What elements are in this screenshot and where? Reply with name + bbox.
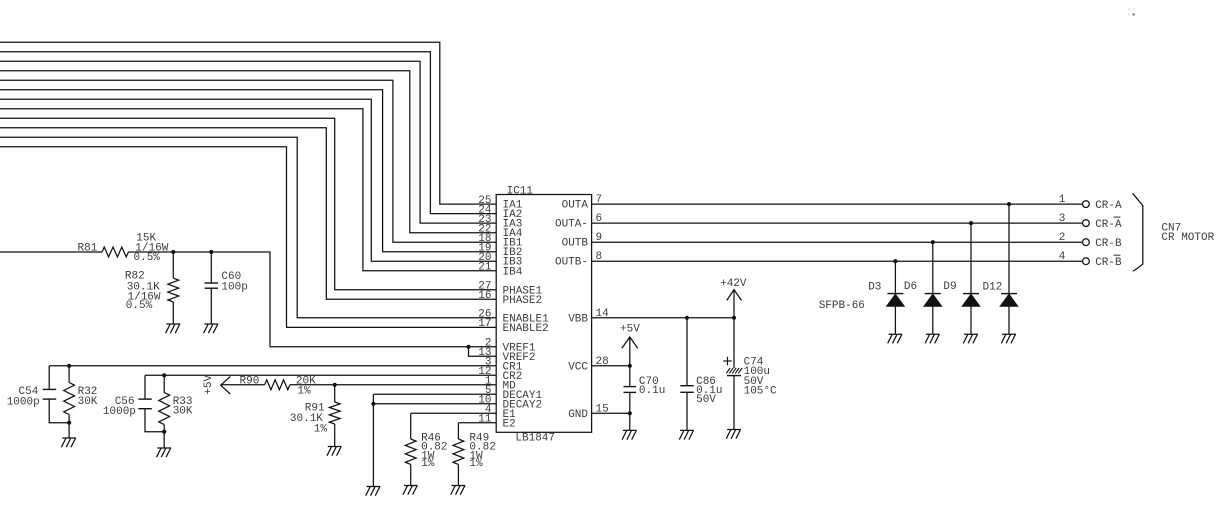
junction node +42V/C74	[732, 316, 736, 320]
wire bundle net to pin IB2	[0, 90, 496, 252]
ground under R49	[451, 486, 466, 495]
wire E1 net	[411, 412, 497, 414]
wire bundle net to pin ENABLE1	[0, 137, 496, 317]
svg-text:SFPB-66: SFPB-66	[819, 300, 865, 312]
speckle artifact	[1132, 13, 1135, 16]
junction node DECAY2	[371, 402, 375, 406]
connector CN7 pin 3 circle	[1083, 220, 1090, 227]
svg-text:IB4: IB4	[503, 266, 523, 278]
wire VREF2 elbow	[469, 347, 497, 357]
svg-text:100p: 100p	[221, 282, 247, 294]
svg-text:VCC: VCC	[568, 361, 588, 373]
svg-text:ENABLE2: ENABLE2	[503, 323, 549, 335]
op-amp / driver IC U: IC11 LB1847 body	[496, 195, 591, 433]
svg-text:1%: 1%	[314, 423, 328, 435]
svg-text:1%: 1%	[421, 458, 435, 470]
svg-text:1%: 1%	[297, 385, 311, 397]
svg-text:0.1u: 0.1u	[639, 385, 665, 397]
capacitor C56	[144, 375, 146, 399]
junction node C54/R32	[67, 421, 71, 425]
junction node OUTB/diode	[931, 240, 935, 244]
svg-text:GND: GND	[568, 409, 588, 421]
resistor R82	[172, 252, 174, 278]
ground under D12	[1001, 334, 1016, 343]
wire VBB rail	[592, 317, 734, 319]
svg-text:IC11: IC11	[507, 185, 534, 197]
svg-text:OUTA: OUTA	[562, 200, 589, 212]
diode D9	[970, 223, 972, 294]
ground under R46	[403, 486, 418, 495]
connector CN7 pin 1 circle	[1083, 201, 1090, 208]
diode D6	[932, 242, 934, 293]
junction node OUTB-/diode	[893, 259, 897, 263]
svg-text:+5V: +5V	[620, 323, 640, 335]
wire bundle net to pin IB3	[0, 99, 496, 261]
svg-text:105°C: 105°C	[744, 386, 777, 398]
svg-text:OUTA-: OUTA-	[555, 219, 588, 231]
svg-text:CR-B: CR-B	[1095, 257, 1122, 269]
ground under R33	[157, 448, 172, 457]
ground under C74	[726, 430, 741, 439]
svg-text:R82: R82	[125, 270, 145, 282]
svg-text:0.5%: 0.5%	[126, 300, 153, 312]
svg-text:17: 17	[478, 318, 491, 330]
capacitor C74 (electrolytic)	[733, 318, 735, 368]
junction node C86 tap	[685, 316, 689, 320]
svg-text:1: 1	[1059, 194, 1066, 206]
junction node CR1/R32	[67, 364, 71, 368]
connector CN7 pin 4 circle	[1083, 258, 1090, 265]
wire bundle net to pin IA4	[0, 71, 496, 233]
ground under C70	[622, 430, 637, 439]
svg-text:VBB: VBB	[568, 313, 588, 325]
wire CR1 net	[49, 365, 496, 367]
capacitor C86	[686, 318, 688, 386]
connector CN7 bracket	[1133, 193, 1143, 271]
connector CN7 pin 2 circle	[1083, 239, 1090, 246]
wire +5V to R90	[221, 384, 265, 386]
wire bundle net to pin PHASE1	[0, 118, 496, 289]
resistor R90	[265, 380, 290, 390]
svg-text:2: 2	[1059, 232, 1066, 244]
junction node VREF1/VREF2	[466, 345, 470, 349]
svg-text:E2: E2	[503, 418, 516, 430]
wire DECAY1 net	[373, 393, 496, 395]
svg-text:1000p: 1000p	[103, 406, 136, 418]
diode D3	[894, 261, 896, 293]
ground under D6	[925, 334, 940, 343]
svg-text:21: 21	[478, 262, 492, 274]
wire bundle net to pin IB4	[0, 109, 496, 271]
svg-text:CR-A: CR-A	[1095, 219, 1122, 231]
resistor R33	[163, 375, 165, 392]
capacitor C60	[210, 252, 212, 283]
wire E2 net	[458, 422, 496, 424]
svg-text:D12: D12	[983, 281, 1003, 293]
wire OUTB- net to connector	[592, 260, 1083, 262]
svg-text:D3: D3	[868, 281, 881, 293]
wire bundle net to pin IB1	[0, 80, 496, 242]
svg-text:30K: 30K	[173, 406, 193, 418]
svg-text:R90: R90	[240, 376, 260, 388]
svg-text:30K: 30K	[78, 396, 98, 408]
wire bundle net to pin PHASE2	[0, 128, 496, 299]
wire DECAY2 net	[373, 403, 496, 405]
wire DECAY ground drop	[372, 394, 374, 486]
svg-text:50V: 50V	[696, 394, 716, 406]
junction node C60 tap	[209, 250, 213, 254]
svg-text:LB1847: LB1847	[515, 432, 555, 444]
junction node GND/C70	[628, 411, 632, 415]
svg-text:1%: 1%	[469, 458, 483, 470]
junction node R82 tap	[171, 250, 175, 254]
junction node C56/R33	[162, 430, 166, 434]
ground under R32	[61, 438, 76, 447]
wire bundle net to pin IA1	[0, 42, 496, 204]
ground under D3	[888, 334, 903, 343]
svg-text:D9: D9	[943, 281, 956, 293]
svg-text:16: 16	[478, 290, 491, 302]
svg-text:R81: R81	[78, 242, 98, 254]
svg-text:3: 3	[1059, 213, 1066, 225]
svg-text:+42V: +42V	[720, 278, 747, 290]
wire left rail into R81	[0, 251, 102, 253]
capacitor C54	[48, 366, 50, 390]
resistor R81	[102, 247, 128, 257]
ground under R91	[327, 447, 342, 456]
svg-text:OUTB-: OUTB-	[555, 257, 588, 269]
wire OUTA net to connector	[592, 203, 1083, 205]
power +5V arrow	[629, 337, 631, 366]
junction node OUTA-/diode	[969, 221, 973, 225]
svg-text:4: 4	[1059, 251, 1066, 263]
ground under R82	[166, 324, 181, 333]
ground under C86	[679, 430, 694, 439]
wire bundle net to pin IA2	[0, 52, 496, 214]
resistor R32	[68, 366, 70, 383]
svg-text:PHASE2: PHASE2	[503, 295, 543, 307]
wire OUTB net to connector	[592, 241, 1083, 243]
wire CR2 net	[145, 374, 496, 376]
svg-text:CR MOTOR: CR MOTOR	[1161, 232, 1214, 244]
capacitor C70	[629, 366, 631, 387]
wire GND net	[592, 412, 630, 414]
wire bundle net to pin IA3	[0, 61, 496, 223]
resistor R46	[410, 413, 412, 439]
ground under DECAY drop	[366, 487, 381, 496]
svg-text:D6: D6	[904, 281, 917, 293]
power +5V arrow (left pointing)	[221, 376, 231, 394]
svg-text:1000p: 1000p	[7, 397, 40, 409]
resistor R49	[457, 423, 459, 439]
svg-text:OUTB: OUTB	[562, 238, 589, 250]
power +42V arrow	[733, 290, 735, 318]
svg-text:CR-B: CR-B	[1095, 238, 1122, 250]
junction node MD/R91	[333, 383, 337, 387]
wire bundle net to pin ENABLE2	[0, 147, 496, 328]
wire OUTA- net to connector	[592, 222, 1083, 224]
wire R81 to corner	[128, 252, 496, 347]
resistor R91	[334, 385, 336, 402]
C74 polarity plus sign	[723, 360, 731, 362]
svg-text:11: 11	[478, 414, 492, 426]
junction node OUTA/diode	[1007, 202, 1011, 206]
svg-text:+5V: +5V	[203, 375, 215, 395]
diode D12	[1008, 204, 1010, 294]
svg-text:0.5%: 0.5%	[134, 252, 161, 264]
junction node CR2/R33	[162, 373, 166, 377]
wire R90 to MD pin	[290, 384, 496, 386]
svg-text:CR-A: CR-A	[1095, 200, 1122, 212]
ground under D9	[963, 334, 978, 343]
junction node VCC/C70	[628, 364, 632, 368]
ground under C60	[204, 324, 219, 333]
wire VCC net	[592, 365, 630, 367]
